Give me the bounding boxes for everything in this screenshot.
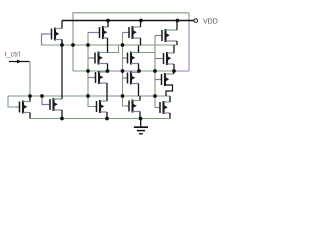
wire stage1 input bus xyxy=(87,33,89,97)
N1b source lead xyxy=(100,111,107,113)
N3b source lead xyxy=(164,112,171,114)
junction P-bias at C1 drain xyxy=(60,43,64,47)
junction mid rail stage3 bus xyxy=(153,69,157,73)
junction VDD-stage3 xyxy=(176,19,180,23)
P3a source lead to VDD xyxy=(166,29,178,31)
N_b drain lead xyxy=(54,98,63,100)
transistor P3b (stage3 inverter PMOS) xyxy=(160,52,171,65)
wire stage3 output to feedback xyxy=(174,70,189,72)
junction VDD-stage2 xyxy=(139,19,143,23)
junction ground stage1 xyxy=(105,117,109,121)
junction stage3 output xyxy=(172,69,176,73)
transistor N3b (stage3 bottom NMOS) xyxy=(157,101,168,114)
I_ctrl arrow xyxy=(17,60,22,64)
junction stage2 output xyxy=(137,69,141,73)
P1a source lead to VDD xyxy=(103,26,108,28)
junction ground stage2 xyxy=(139,117,143,121)
P1a gate lead ext xyxy=(88,32,96,34)
junction P-bias at stage1 bus xyxy=(86,43,90,47)
P3a gate lead ext xyxy=(155,35,159,37)
P3a drain lead xyxy=(166,40,178,42)
wire I_ctrl down to mirror node xyxy=(29,62,31,102)
junction VDD-stage1 xyxy=(106,19,110,23)
wire stage1 bottom gate elbow xyxy=(88,96,93,107)
wire stage3 bottom gate elbow xyxy=(155,96,157,108)
wire feedback right vertical upper xyxy=(188,13,190,23)
P3b source lead xyxy=(167,52,174,54)
transistor N3a (stage3 inverter NMOS) xyxy=(158,73,169,86)
P1a drain lead xyxy=(103,37,108,39)
junction mid rail stage1 bus xyxy=(86,69,90,73)
wire N-bias rail xyxy=(8,95,170,97)
junction N-bias at N_b gate xyxy=(40,94,44,98)
N3a gate lead ext xyxy=(155,79,158,81)
M_in source lead xyxy=(23,112,30,114)
wire N-bias purple segment 2 xyxy=(140,95,154,97)
N2a gate lead ext xyxy=(123,77,125,79)
P2a gate lead ext xyxy=(123,32,126,34)
N3a source lead jog xyxy=(165,85,173,96)
junction N-bias stage2 xyxy=(121,94,125,98)
P3b gate lead ext xyxy=(155,58,160,60)
P2b source lead xyxy=(131,52,139,54)
wire mid rail purple segment 1 xyxy=(110,70,123,72)
wire stage2 to stage3 gate xyxy=(139,52,156,54)
N2b drain lead xyxy=(133,100,141,102)
wire stage3 input bus xyxy=(154,36,156,97)
transistor P2a (stage2 top PMOS) xyxy=(126,26,137,39)
C1 source lead to VDD xyxy=(55,28,62,30)
P1b drain lead xyxy=(99,63,108,65)
transistor P3a (stage3 top PMOS) xyxy=(159,29,170,42)
wire feedback top net xyxy=(73,12,190,14)
M_in drain lead xyxy=(23,101,30,103)
transistor N2b (stage2 bottom NMOS) xyxy=(126,100,137,113)
transistor P1b (stage1 inverter PMOS) xyxy=(92,52,103,65)
N1a gate lead ext xyxy=(88,77,92,79)
N_b gate elbow xyxy=(42,96,47,105)
wire I_ctrl input lead xyxy=(9,61,30,63)
junction mid rail stage2 bus xyxy=(121,69,125,73)
wire stage1 source-node jog xyxy=(108,46,119,53)
C1 drain lead xyxy=(55,39,62,41)
svg-text:VDD: VDD xyxy=(203,18,218,25)
P1b source lead xyxy=(99,52,108,54)
wire feedback left vertical xyxy=(72,13,74,71)
svg-text:I_ctrl: I_ctrl xyxy=(5,50,21,59)
wire ground rail xyxy=(30,118,170,120)
N3b drain lead xyxy=(164,101,171,103)
P1b gate lead ext xyxy=(88,57,92,59)
wire VDD rail xyxy=(62,20,194,22)
transistor N2a (stage2 inverter NMOS) xyxy=(124,72,135,85)
P2b drain lead xyxy=(131,63,139,65)
C1 gate elbow xyxy=(42,34,49,45)
transistor P1a (stage1 top PMOS) xyxy=(96,26,107,39)
N_b source lead xyxy=(54,109,63,111)
junction N-bias stage1 xyxy=(86,94,90,98)
wire feedback right vertical lower xyxy=(188,23,190,71)
junction N-bias stage3 xyxy=(153,94,157,98)
transistor C1 (bias PMOS) xyxy=(48,28,59,41)
wire bias branch vertical xyxy=(61,40,63,100)
transistor M_in (input NMOS) xyxy=(16,101,27,114)
ground xyxy=(134,119,148,134)
junction stage1 output xyxy=(106,69,110,73)
N1a drain lead xyxy=(99,71,108,73)
transistor P2b (stage2 inverter PMOS) xyxy=(124,52,135,65)
N2a drain lead xyxy=(131,72,139,74)
N2a source lead xyxy=(131,83,139,85)
wire mid rail purple segment 2 xyxy=(125,70,139,72)
N3a drain lead xyxy=(165,73,174,75)
N1b drain lead xyxy=(100,100,107,102)
wire P-bias rail xyxy=(42,44,178,46)
junction P-bias at feedback xyxy=(71,43,75,47)
wire wrap to input NMOS gate xyxy=(8,96,16,107)
transistor N1a (stage1 inverter NMOS) xyxy=(92,71,103,84)
N2b source lead xyxy=(133,111,141,113)
P2b gate lead ext xyxy=(123,57,125,59)
P2a source lead to VDD xyxy=(133,26,141,28)
junction ground N_b xyxy=(60,117,64,121)
wire N-bias purple segment 1 xyxy=(110,95,123,97)
wire stage2 input bus xyxy=(122,33,124,97)
P2a drain lead xyxy=(133,37,141,39)
transistor N1b (stage1 bottom NMOS) xyxy=(93,100,104,113)
junction N-bias at I_ctrl xyxy=(28,94,32,98)
wire mid rail xyxy=(73,70,174,72)
VDD port circle xyxy=(194,19,198,23)
P3b drain lead xyxy=(167,63,174,65)
wire stage2 bottom gate elbow xyxy=(123,96,126,106)
transistor N_b (mirror NMOS) xyxy=(47,98,58,111)
N1a source lead xyxy=(99,82,107,84)
junction P-bias at stage2 bus xyxy=(121,43,125,47)
